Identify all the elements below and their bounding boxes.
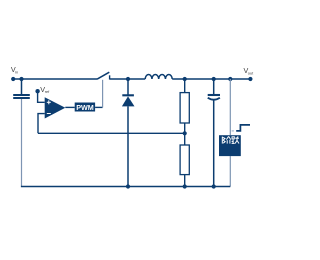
ground rail xyxy=(21,186,230,188)
switch S1 blade xyxy=(97,72,109,79)
wire inductor to output node xyxy=(172,78,250,80)
node rail dot cap xyxy=(212,184,216,188)
label 阶跃 hand-drawn strokes xyxy=(222,136,239,143)
node output cap junction dot xyxy=(212,77,216,81)
node rail dot divider xyxy=(183,184,187,188)
wire top bus left (junction to switch) xyxy=(22,78,98,80)
wire Vin to junction xyxy=(13,78,21,80)
inductor L1 xyxy=(145,75,172,79)
wire feedback horizontal xyxy=(38,132,185,134)
diode D1 xyxy=(127,79,129,95)
wire to R1 xyxy=(184,79,186,93)
block step load (阶跃) xyxy=(219,135,241,156)
resistor R1 xyxy=(180,93,189,123)
switch S1 right contact xyxy=(109,75,111,79)
wire R1 to R2 xyxy=(184,123,186,145)
op-amp U1 xyxy=(45,97,66,118)
node Vout terminal dot xyxy=(248,77,252,81)
wire C2 to ground rail xyxy=(213,100,215,186)
node Vref terminal dot xyxy=(35,89,39,93)
capacitor C1 plates xyxy=(13,94,30,96)
capacitor C2 plates xyxy=(208,94,220,96)
wire PWM to switch control (light) xyxy=(102,80,104,108)
wire op-amp output xyxy=(65,106,74,108)
wire Vout node to step load (light) xyxy=(229,79,231,135)
svg-text:in: in xyxy=(15,69,18,74)
node Vin terminal dot xyxy=(11,77,15,81)
wire switch to diode node xyxy=(110,78,146,80)
node input junction dot xyxy=(19,77,23,81)
svg-text:PWM: PWM xyxy=(76,103,94,112)
node Vout junction dot xyxy=(228,77,232,81)
wire op-amp minus input feedback xyxy=(38,114,45,134)
svg-text:ref: ref xyxy=(45,89,50,94)
capacitor C1 stub xyxy=(21,79,23,94)
capacitor C2 stub xyxy=(213,79,215,94)
step waveform icon xyxy=(236,125,250,131)
wire Vref to op-amp plus input xyxy=(38,93,45,103)
node R1 top junction dot xyxy=(183,77,187,81)
resistor R2 xyxy=(180,145,189,175)
step icon lead dash (light) xyxy=(232,130,234,132)
wire PWM output stub xyxy=(95,106,103,108)
wire step load to ground rail (light) xyxy=(229,156,231,186)
wire diode to ground rail xyxy=(127,106,129,186)
node diode junction dot xyxy=(126,77,130,81)
node divider mid dot xyxy=(183,131,187,135)
block PWM xyxy=(75,103,95,112)
node rail dot diode xyxy=(126,184,130,188)
svg-text:out: out xyxy=(248,71,254,76)
wire C1 bottom to ground rail (light) xyxy=(21,99,23,187)
wire R2 to ground rail xyxy=(184,175,186,187)
